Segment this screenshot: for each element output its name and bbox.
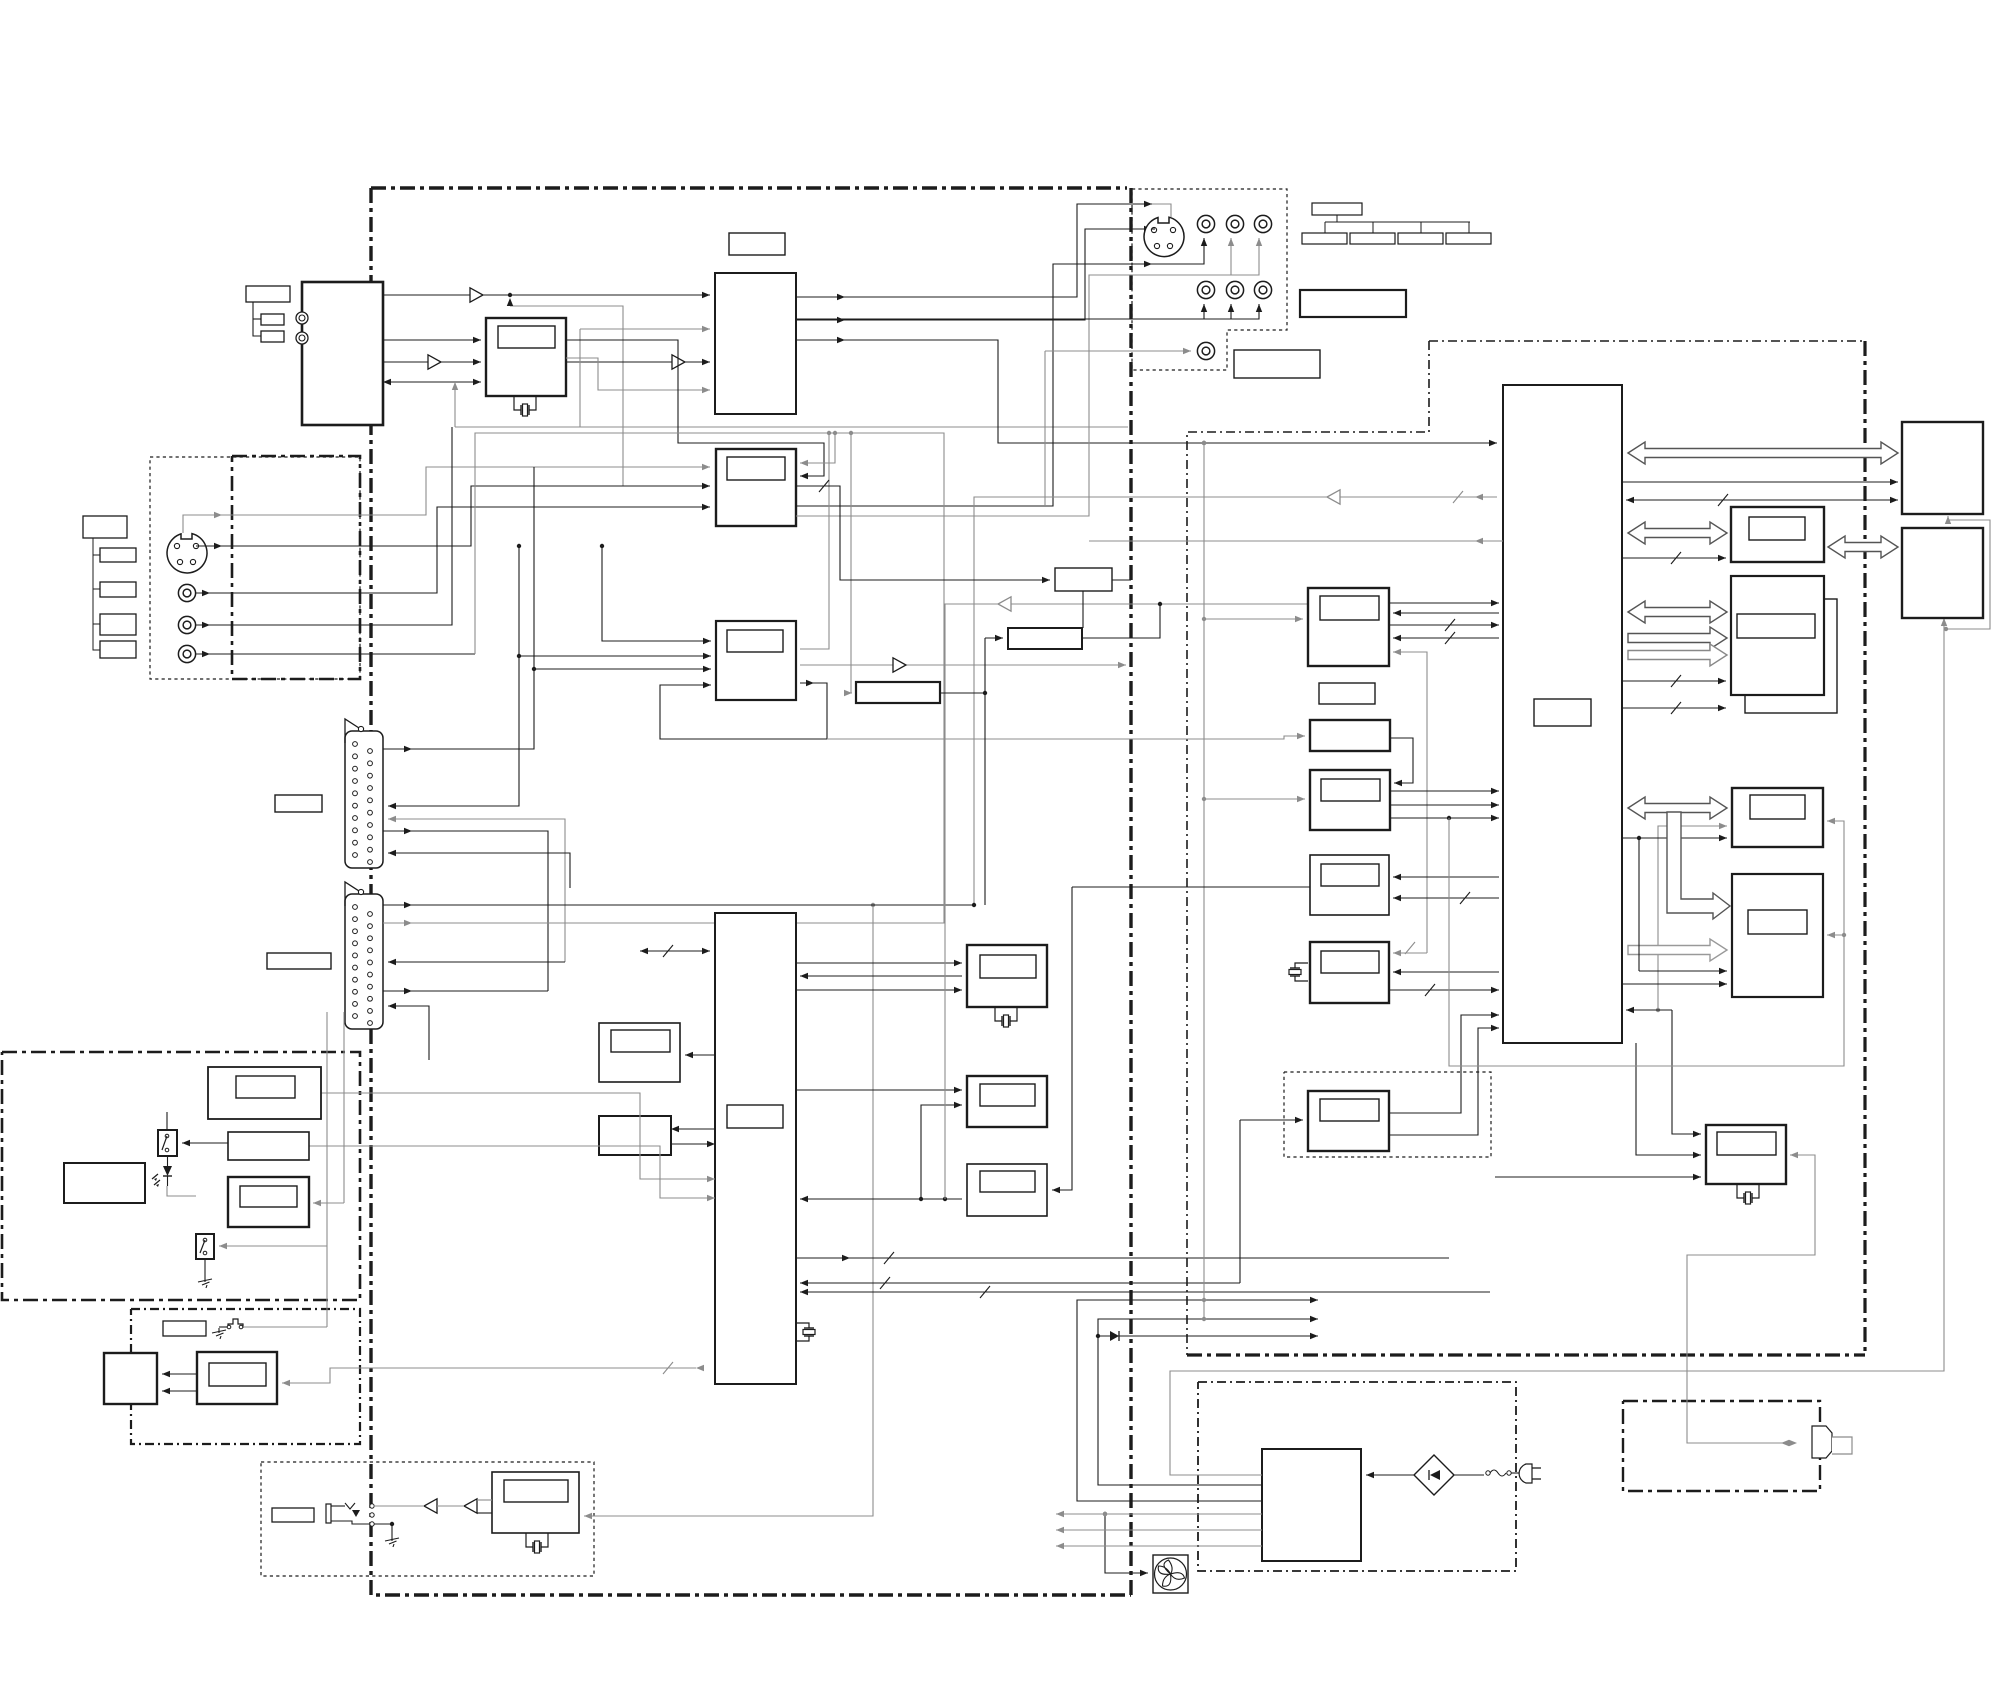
timer switch SW2 (196, 1234, 214, 1259)
wire grey from BigIC left (974, 491, 1497, 905)
crystal X8 (1737, 1184, 1759, 1204)
wire CN2 out3 (383, 990, 548, 992)
wire IC3 to IC1 buffered (566, 359, 710, 365)
wire RTC net 1 (1626, 1007, 1672, 1013)
wire into RB2 from below (921, 1102, 962, 1199)
wire RCA1 feed (1152, 238, 1207, 264)
front RCA jack 1 (178, 584, 195, 601)
front AV jack dotted box (150, 457, 360, 679)
wire RTC right loop (1687, 1152, 1815, 1443)
ground push switch (212, 1328, 226, 1339)
wire RRA to BigIC c (1389, 619, 1499, 631)
wire grey 1427 net (1393, 649, 1427, 953)
wire AMP to SPK 2 (162, 1388, 197, 1394)
label box near CN1 (275, 795, 322, 812)
fuse and AC cord (1454, 1470, 1524, 1476)
wire loop ext to RRB (827, 733, 1305, 739)
wire CN2 grey drop1 (326, 1012, 328, 1143)
wire CN2 in2 (388, 1003, 429, 1060)
RCA jack top row 2 (1226, 215, 1243, 232)
wire grey into RM4 (313, 1200, 344, 1206)
flash memory stacked (1731, 576, 1837, 713)
wire BoxF out b (1389, 1025, 1499, 1135)
HDMI transmitter BoxF (1308, 1091, 1389, 1151)
wire CN1 out1 (383, 467, 534, 749)
wire BigIC flash d (1622, 702, 1726, 714)
wire PSU out3 (1077, 1297, 1318, 1501)
DDR big RRbig (1732, 874, 1823, 997)
top AV connector dotted box (1132, 189, 1287, 370)
wire BoxS2 stub (1082, 602, 1162, 638)
crystal X7 (1289, 963, 1308, 981)
system control CPU IC4 (715, 913, 796, 1384)
wire BoxS1 right stub (1112, 579, 1131, 581)
wire RRA to BigIC a (1389, 600, 1499, 606)
wire FarR1 to BigIC (1626, 494, 1898, 506)
wire BigIC RRbig a (1639, 968, 1727, 974)
video DAC RRE (1310, 942, 1389, 1003)
key matrix RM3 (228, 1132, 309, 1160)
wire IC2 out to RCA top feed (796, 261, 1152, 506)
wire RRC to BigIC a (1390, 788, 1499, 794)
wire grey RRA to x945 (945, 604, 1308, 1199)
S-video DIN connector J1 (1144, 217, 1184, 256)
wire LED to RM junction (167, 1186, 196, 1196)
wire BigIC to FarR1 (1622, 479, 1898, 485)
tuner PLL RB1 (967, 945, 1047, 1007)
bus arrow branch into RRbig (1667, 812, 1730, 919)
wire jack sleeve ground (374, 1522, 394, 1536)
wire RTC net 2 (1636, 1043, 1701, 1158)
wire front svideo C (196, 483, 710, 546)
wire CN2 out2 grey (383, 431, 944, 923)
wire IC1 out to right IC (796, 340, 1497, 446)
wire grey into CPU 1 (321, 1093, 715, 1182)
wire LBoxB to CPU a (671, 1126, 715, 1132)
IR receiver RM1 (208, 1067, 321, 1119)
diode D2 (1110, 1331, 1119, 1341)
wire RB3 line to CPU (800, 1196, 962, 1202)
wire grey into CPU 2 (309, 1146, 715, 1201)
buffer A1 (470, 288, 483, 302)
wire front svideo Y (183, 464, 710, 533)
wire RRE out (1389, 984, 1499, 996)
wire IC1 out to DIN (796, 201, 1152, 297)
wire into IC2 right (800, 431, 837, 466)
wire bottom RCA branch1 (1201, 304, 1207, 319)
headphone jack J3 (326, 1503, 372, 1524)
wire to BoxM (844, 431, 853, 696)
wire tri2 to tri1 (437, 1505, 464, 1507)
wire IC5 in1 (600, 544, 711, 644)
label box TB1 (1300, 290, 1406, 317)
fan M1 (1153, 1555, 1188, 1593)
wire BoxS1 feed (796, 480, 1050, 583)
front RCA jack 2 (178, 616, 195, 633)
bus arrow BigIC-flash (1628, 601, 1727, 623)
wire audio R riser grey (475, 433, 829, 654)
wire buffered bus right (800, 662, 1126, 668)
speaker SPK (104, 1353, 157, 1404)
EEPROM right (1731, 507, 1824, 562)
wire IC5 in3 (532, 666, 711, 672)
wire single RCA feed grey (1045, 348, 1191, 354)
RCA jack single (1197, 342, 1214, 359)
small box BoxS1 (1055, 568, 1112, 591)
wire grey 1449 net (1449, 818, 1844, 1066)
wire into RB3 right (1052, 887, 1072, 1193)
wire into CPU bottom (282, 1362, 704, 1386)
wire grey into RRbig (1827, 932, 1846, 938)
signal name tree labels (1302, 203, 1491, 244)
wire IC1 out to DIN pin (796, 226, 1152, 320)
crystal X6 (526, 1533, 548, 1553)
wire IC0-IC3 bidir (383, 379, 481, 385)
wire vert 1639 (1638, 838, 1640, 971)
audio DAC HPIC (492, 1472, 579, 1533)
RCA jack mid row 1 (1197, 281, 1214, 298)
wire bus into CPU (640, 945, 710, 957)
wire BoxF out a (1389, 1012, 1499, 1113)
AC inlet dash-dot box (1623, 1401, 1820, 1491)
wire CN2 out1 (383, 903, 976, 907)
wire CPU bus right 2 (800, 1286, 1490, 1298)
wire grey junction drop (452, 382, 458, 427)
wire RRD out left (1072, 886, 1310, 888)
wire BigIC RRmid b (1622, 835, 1727, 841)
switching power supply PSU (1262, 1449, 1361, 1561)
small box BoxS2 (1008, 628, 1082, 649)
bus arrow flash b (1628, 644, 1727, 666)
wire RRC to BigIC c (1390, 815, 1499, 821)
wire feedback grey (510, 306, 623, 486)
wire bottom RCAs feed (796, 304, 1262, 319)
front end RRA (1308, 588, 1389, 666)
wire RTC net 3 (1495, 1174, 1701, 1180)
wire grey headphone drop (871, 903, 875, 1368)
RTC IC (1706, 1125, 1786, 1184)
OSD IC LBoxA (599, 1023, 680, 1082)
crystal X4 (796, 1323, 815, 1341)
wire IC3 out down bus (566, 340, 824, 479)
wire CN1 in3 (388, 850, 570, 888)
wire BigIC RRmid a (1656, 823, 1727, 1012)
wire bridge to PSU (1366, 1472, 1414, 1478)
wide label box BoxM (856, 682, 940, 703)
wire BigIC to RRA d (1393, 632, 1499, 644)
bus arrow BigIC-EEPROM (1628, 522, 1727, 544)
label box SRECT (163, 1321, 206, 1336)
wire CN2 in1 (388, 959, 565, 965)
wire CPU to RB1 a (796, 960, 962, 966)
wire BoxS1 stub (1082, 591, 1084, 628)
wire DIN feed grey (1152, 204, 1171, 217)
wire RCA2 RCA3 feed grey (1160, 238, 1262, 275)
reset IC LBoxB (599, 1116, 671, 1155)
bus arrow EEPROM-FarR2 (1828, 536, 1898, 558)
RF AGC RRB (1310, 720, 1390, 751)
audio DSP RRD (1310, 855, 1389, 915)
front RCA jack 3 (178, 645, 195, 662)
wire PSU out4 grey (1056, 1511, 1262, 1517)
wire front audio L (196, 427, 452, 625)
buffer grey left2 (1327, 490, 1340, 504)
flash RB3 (967, 1164, 1047, 1216)
power switch SW1 (158, 1130, 177, 1156)
label box near CN2 (267, 953, 331, 969)
wire CPU to RB1 b (796, 987, 962, 993)
wire grey bus y427 (455, 426, 1128, 428)
wire into SW2 (219, 1243, 327, 1249)
wire RCA2 branch grey (1228, 238, 1234, 275)
wire into SW1 (182, 1140, 228, 1146)
wire CPU in right (800, 1277, 1240, 1289)
ground headphone (385, 1536, 399, 1547)
wire grey x580 drop (579, 329, 581, 427)
wire CN2 grey drop2 (343, 1012, 345, 1203)
video decoder IC1 (715, 273, 796, 414)
crystal X5 (995, 1007, 1017, 1027)
RCA jack mid row 2 (1226, 281, 1243, 298)
wire HPIC to tri2 a (477, 1499, 492, 1501)
wire RRC to BigIC b (1390, 802, 1499, 808)
SDRAM FarR2 (1902, 528, 1983, 618)
buffer grey RRA (998, 597, 1011, 611)
bus arrow BigIC-RRmid (1628, 797, 1727, 819)
wire vert x1240 (1239, 1120, 1241, 1283)
front AV jack dash-dot box (232, 456, 360, 679)
wire BigIC flash c (1622, 675, 1726, 687)
label box HP1 (272, 1508, 314, 1522)
wire RTC net 1b (1672, 1010, 1701, 1137)
wire into HPIC (584, 1368, 873, 1519)
front AV label boxes (83, 516, 136, 658)
wire IC2 grey out to RCA mid feed (796, 275, 1160, 516)
RCA jack mid row 3 (1254, 281, 1271, 298)
power push switch (219, 1319, 243, 1329)
wire PSU out2 (1098, 1316, 1318, 1485)
jack contacts (370, 1504, 374, 1526)
bus arrow BigIC-RRbig 2 (1628, 939, 1727, 961)
antenna jack F-connectors (296, 312, 308, 344)
wire FarR1 feed grey (1944, 516, 1990, 631)
wire PSU out5 grey (1056, 1527, 1262, 1533)
wire BigIC to EEPROM slash (1622, 552, 1726, 564)
wire to fan (1103, 1512, 1148, 1576)
wire CPU to RB2 (796, 1087, 962, 1093)
wire BigIC to RRD a (1393, 874, 1499, 880)
speaker dash-dot box (131, 1309, 360, 1444)
wire CN1 in2 grey (388, 816, 565, 962)
crystal X3 (514, 396, 536, 416)
wire CN1 out2 (383, 831, 548, 991)
headphone amp tri2 (464, 1499, 477, 1513)
wire grey x327 seg (326, 1143, 328, 1327)
antenna label boxes (246, 286, 290, 342)
MPEG decoder BigIC (1503, 385, 1622, 1043)
EEPROM RB2 (967, 1076, 1047, 1127)
wire grey to IC1 in (580, 326, 710, 332)
wire single RCA vert grey (1044, 351, 1046, 506)
audio processor IC2 (716, 449, 796, 526)
wire LBoxB to CPU b (671, 1141, 715, 1147)
wire PSU out1 grey (1170, 618, 1947, 1475)
small label RRS (1319, 683, 1375, 704)
wire SW2 ground stem (204, 1259, 206, 1277)
IR LED D1 (152, 1156, 172, 1187)
wire CPU bus right 1 (796, 1252, 1449, 1264)
wire vert x985 (983, 638, 987, 905)
headphone dotted box (261, 1462, 594, 1576)
wire IC0 to IC3 in2 (383, 359, 481, 365)
wire bottom RCA branch2 (1228, 304, 1234, 319)
wire front audio R (196, 653, 475, 655)
RCA jack top row 3 (1254, 215, 1271, 232)
wire grey y541 (1089, 540, 1503, 542)
bridge rectifier (1414, 1455, 1454, 1495)
RCA jack top row 1 (1197, 215, 1214, 232)
wire IC5 in2 (517, 653, 711, 659)
wire BigIC to RRA b (1393, 610, 1499, 616)
front S-video DIN connector J2 (167, 534, 207, 573)
D-sub connector CN1 (345, 719, 383, 868)
wire IC5 feedback loop (660, 682, 827, 739)
remote sensor dash-dot box (2, 1052, 360, 1300)
label box TB2 (1234, 350, 1320, 378)
ground below SW2 (198, 1277, 212, 1288)
wire push switch line (243, 1326, 327, 1328)
wire BigIC to RRD b (1393, 892, 1499, 904)
center divider dash-dot line (1129, 188, 1132, 1595)
demodulator RRC (1310, 770, 1390, 830)
wire RRC in left (1202, 796, 1305, 802)
headphone amp tri1 (424, 1499, 437, 1513)
audio ADC IC5 (716, 621, 796, 700)
BigIC inner label (1534, 699, 1591, 726)
wire BoxM out (940, 692, 985, 694)
wire tri1 to jack (374, 1505, 424, 1507)
bus arrow BigIC-FarR1 (1628, 442, 1898, 464)
audio amp AMP (197, 1352, 277, 1404)
wire diode branch (1096, 1333, 1318, 1339)
wire DIN pin feed (1152, 228, 1155, 230)
tuner block IC0 (302, 282, 383, 425)
wire IC0 video out to IC1 (383, 292, 710, 298)
wire HPIC to tri2 b (477, 1512, 492, 1514)
wire AMP to SPK 1 (162, 1371, 197, 1377)
wire power rail x1204 (1202, 441, 1206, 1321)
D-sub connector CN2 (345, 882, 383, 1029)
video switch IC3 (486, 318, 566, 396)
dashed box around BoxF (1284, 1072, 1491, 1157)
main board dash-dot border (371, 186, 1127, 189)
wire front video (196, 504, 710, 593)
wire CN1 in1 (388, 544, 521, 809)
wire RRA in left grey (1202, 616, 1303, 622)
wire SW1 stem (166, 1112, 168, 1130)
buffer A5 (893, 658, 906, 672)
power supply dash-dot box (1198, 1382, 1516, 1571)
wire RB1 to CPU (800, 973, 962, 979)
right digital board dash-dot border (1429, 340, 1864, 342)
wire IC3 out via x598 (566, 358, 710, 393)
bus arrow flash a (1628, 627, 1727, 649)
wire BigIC RRbig b (1622, 981, 1727, 987)
wire into BoxS2 (985, 635, 1003, 641)
wire grey 1427 into RRE (1393, 942, 1427, 956)
SDRAM FarR1 (1902, 422, 1983, 514)
wire CPU to LBoxA (685, 1052, 715, 1058)
LED display RM4 (228, 1177, 309, 1227)
buffer A3 (672, 355, 685, 369)
wire BoxF in (1240, 1117, 1303, 1123)
label box above IC1 (729, 233, 785, 255)
DDR RRmid (1732, 788, 1823, 847)
wire RRB out loop (1390, 738, 1413, 786)
wire IC0 to IC3 in1 (383, 337, 481, 343)
AC plug (1519, 1464, 1541, 1483)
buffer A2 (428, 355, 441, 369)
wire PSU out6 grey (1056, 1543, 1262, 1549)
wire RRE to BigIC (1393, 969, 1499, 975)
remote commander RM2 (64, 1163, 145, 1203)
